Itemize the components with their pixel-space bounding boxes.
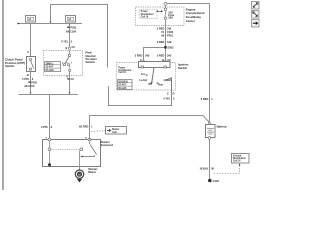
svg-text:C2: C2: [71, 77, 75, 81]
svg-text:30MA 1: 30MA 1: [46, 62, 55, 65]
svg-text:D2-9A6: D2-9A6: [119, 87, 128, 90]
svg-text:P201: P201: [31, 80, 38, 84]
svg-text:D: D: [173, 91, 175, 95]
svg-text:Cell 14: Cell 14: [233, 159, 241, 162]
power distribution note inside ignition box: [118, 67, 131, 74]
toolbar button zoom in: [252, 11, 260, 19]
label 3 RED 342: [157, 40, 172, 44]
label A6 P201: [161, 33, 174, 37]
ignition switch rotary contacts: [139, 68, 171, 91]
starter solenoid label: [101, 140, 113, 147]
junction arrow at riser base: [49, 21, 51, 23]
starter asm link box: [91, 127, 127, 135]
ignition switch label: [178, 63, 189, 70]
svg-text:3 RED: 3 RED: [157, 54, 165, 58]
splice S202: [164, 46, 174, 50]
PNP switch contacts: [62, 51, 73, 72]
svg-text:DOOR B: DOOR B: [119, 81, 129, 83]
svg-text:B: B: [66, 46, 68, 50]
svg-text:3 PPL: 3 PPL: [41, 125, 49, 129]
wire: CPP output down to junction bus: [30, 72, 32, 95]
label 18 BLK 50: [199, 167, 214, 171]
svg-text:C: C: [167, 91, 169, 95]
wire: ignition start bridge to cable junction: [109, 86, 172, 106]
toolbar button next: [252, 20, 260, 28]
CPP switch label: [5, 58, 25, 68]
PNP internal position table: [45, 62, 61, 72]
ground distribution link box: [214, 154, 249, 174]
junction arrow CPP at bus: [29, 92, 31, 94]
park neutral position switch dashed box: [44, 51, 83, 76]
PNP switch label: [86, 51, 98, 65]
svg-text:A: A: [66, 75, 68, 79]
svg-text:A: A: [27, 50, 29, 54]
ground under motor: [77, 179, 82, 183]
svg-text:Center: Center: [186, 19, 196, 23]
engine compartment fuse relay center dashed box: [136, 7, 185, 26]
wire: top feed bus: [18, 23, 83, 25]
ignition switch base box: [139, 62, 171, 69]
svg-text:Switch: Switch: [86, 60, 96, 64]
label 4 YEL 5: [163, 97, 175, 101]
arrow from cell label to fuse: [157, 10, 164, 12]
bus end nub: [17, 23, 19, 25]
wire: splice left branch to ignition C: [144, 48, 165, 61]
wire: PNP output to junction bus: [69, 72, 71, 95]
terminal C D at ignition output: [167, 91, 175, 95]
label F1 C303: [161, 30, 173, 34]
power distribution cell sub box: [140, 9, 158, 19]
svg-text:Starter: Starter: [112, 128, 120, 131]
svg-text:Battery: Battery: [217, 125, 227, 129]
wire: PNP switch drop from bus: [69, 24, 71, 48]
svg-text:H2 RED: H2 RED: [79, 125, 89, 129]
starter motor: [75, 170, 83, 178]
ignition switch dashed box: [117, 63, 176, 91]
svg-text:A8 C100: A8 C100: [66, 29, 77, 33]
svg-text:P201: P201: [70, 25, 77, 29]
svg-text:6 RED: 6 RED: [201, 97, 209, 101]
connector tick P201: [67, 25, 77, 29]
solenoid coil path: [48, 141, 83, 166]
junction arrow PNP at bus: [68, 92, 70, 94]
ground G105: [208, 179, 220, 184]
label 5 YEL 5: [61, 39, 73, 43]
svg-text:18 BLK: 18 BLK: [199, 167, 208, 171]
svg-text:5 PPL: 5 PPL: [22, 77, 30, 81]
wire: splice main branch to ignition B: [165, 49, 167, 61]
engine compartment label: [186, 7, 205, 23]
label 5 PPL 6: [22, 77, 34, 81]
wire: battery feed to fuse box top connector: [164, 2, 210, 8]
svg-text:18A: 18A: [168, 16, 173, 20]
svg-text:342: 342: [167, 40, 172, 44]
svg-text:Off: Off: [148, 83, 152, 86]
svg-text:A8 C100: A8 C100: [24, 84, 35, 88]
svg-text:342: 342: [145, 54, 150, 58]
svg-text:Cell 10: Cell 10: [118, 72, 126, 74]
svg-text:P201: P201: [167, 33, 174, 37]
label 2 RED 342: [157, 27, 172, 31]
svg-text:C303: C303: [167, 30, 174, 34]
svg-text:31-4A7: 31-4A7: [46, 66, 54, 69]
fuse 18: [164, 8, 175, 20]
svg-text:31-4A7: 31-4A7: [119, 84, 127, 87]
page left border: [2, 0, 4, 190]
label 2 RED 1: [79, 125, 93, 129]
label 6 RED 1: [201, 97, 213, 101]
svg-text:Switch: Switch: [178, 66, 188, 70]
svg-text:3 RED: 3 RED: [135, 54, 143, 58]
svg-text:Motor: Motor: [88, 170, 97, 174]
svg-text:342: 342: [167, 54, 172, 58]
starter motor label: [88, 167, 98, 174]
svg-text:4 YEL: 4 YEL: [163, 97, 171, 101]
svg-text:Asm: Asm: [112, 131, 117, 134]
wire: solenoid to starter motor: [79, 167, 81, 171]
svg-text:Cell 10: Cell 10: [141, 16, 149, 18]
wire: battery negative to ground: [209, 139, 211, 179]
wire: battery cable to solenoid: [90, 116, 210, 140]
svg-text:D1-9A6: D1-9A6: [46, 69, 55, 72]
ignition position table: [118, 80, 133, 90]
svg-text:Run: Run: [158, 84, 163, 87]
svg-text:G105: G105: [213, 179, 220, 183]
svg-text:Solenoid: Solenoid: [101, 143, 113, 147]
svg-text:C2: C2: [72, 45, 76, 49]
wire: 3 PPL 6 drop to starter solenoid: [49, 95, 51, 141]
svg-text:3 RED: 3 RED: [157, 40, 165, 44]
label 3 PPL 6: [41, 125, 53, 129]
toolbar button zoom out: [252, 2, 260, 10]
clutch pedal position switch box: [27, 57, 36, 72]
svg-text:Switch: Switch: [5, 64, 15, 68]
label 3 RED 342 right: [157, 54, 172, 58]
svg-text:5 YEL: 5 YEL: [61, 39, 69, 43]
connector tick C2: [67, 77, 74, 81]
svg-text:Lock: Lock: [139, 79, 145, 82]
fusible link F2: [66, 16, 76, 23]
svg-text:Distribution: Distribution: [141, 13, 154, 16]
wire: lower junction bus: [19, 94, 79, 96]
svg-text:S202: S202: [168, 46, 175, 50]
solenoid contact arm: [80, 141, 97, 167]
wire: CPP switch drop: [30, 24, 32, 58]
wire: fuse output down to splice: [165, 20, 167, 46]
connector tick A6 P201: [28, 80, 38, 84]
battery: [206, 123, 216, 140]
svg-text:B: B: [27, 73, 29, 77]
connector circle B C2: [66, 45, 76, 50]
wire: battery main vertical: [209, 4, 211, 123]
svg-text:A6: A6: [161, 33, 165, 37]
starter solenoid box: [43, 138, 101, 166]
label 3 RED 342 left: [135, 54, 150, 58]
svg-text:Acc: Acc: [141, 73, 146, 76]
wire: riser bridge from bus to ignition area: [51, 5, 108, 68]
fusible link F1: [26, 16, 36, 23]
